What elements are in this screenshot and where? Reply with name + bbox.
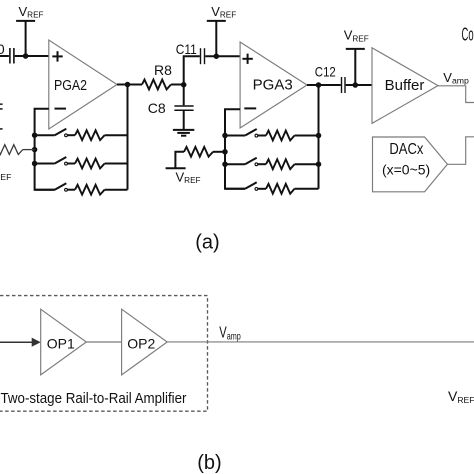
power symbol V_REF (above C11) <box>207 4 236 56</box>
switch, PGA2 feedback branch 3 <box>35 183 68 191</box>
input wire with arrow <box>0 338 41 347</box>
op-amp PGA2 <box>49 40 117 129</box>
wire C11 to PGA3 + input <box>205 55 240 57</box>
wire R8 to node <box>171 84 184 86</box>
partial cut-off label marks at left edge <box>0 104 3 129</box>
resistor, PGA2 feedback branch 1 <box>67 130 127 140</box>
caption (a) <box>195 232 219 254</box>
capacitor C11 <box>176 41 205 64</box>
node PGA3 right bus branch 2 <box>316 161 322 167</box>
svg-text:Two-stage Rail-to-Rail Amplifi: Two-stage Rail-to-Rail Amplifier <box>1 391 187 407</box>
power symbol V_REF (PGA3 feedback) <box>166 152 201 185</box>
resistor to V_REF (partial, cut at left edge) <box>0 145 35 182</box>
node on PGA2 feedback bus (branch 1) <box>32 132 38 138</box>
wire Buffer output V_amp to comparator <box>438 70 474 103</box>
capacitor C8 <box>148 85 194 130</box>
wire PGA2 - input to feedback bus <box>35 109 55 190</box>
resistor, PGA3 feedback branch 1 <box>258 131 319 141</box>
wire node up to C11 <box>184 56 200 84</box>
node on PGA3 feedback bus (branch 2) <box>222 161 228 167</box>
capacitor C12 <box>315 64 345 93</box>
node PGA3 right bus branch 1 <box>316 133 322 139</box>
op-amp OP2 <box>122 309 168 375</box>
node R8 / C8 / C11 junction <box>181 82 187 88</box>
switch, PGA3 feedback branch 1 <box>225 129 258 137</box>
svg-text:0: 0 <box>0 41 5 57</box>
node V_REF junction on Buffer input <box>353 82 359 88</box>
svg-text:(a): (a) <box>195 232 219 254</box>
wire PGA2 output <box>117 84 142 86</box>
switch, PGA3 feedback branch 2 <box>225 158 258 166</box>
wire PGA3 - input to feedback bus <box>225 109 245 189</box>
wire OP2 output V_amp <box>167 324 474 342</box>
node V_REF junction on PGA3 + input <box>214 53 220 59</box>
ground <box>173 130 194 136</box>
svg-text:OP1: OP1 <box>47 336 75 352</box>
node on PGA2 feedback bus (branch 2) <box>32 161 38 167</box>
node on PGA2 feedback bus (V_REF resistor) <box>32 147 38 153</box>
svg-text:C8: C8 <box>148 100 166 116</box>
resistor, PGA3 feedback branch 2 <box>258 159 319 169</box>
node: V_REF junction on PGA2 + input <box>23 53 29 59</box>
resistor, PGA2 feedback branch 3 <box>67 185 127 195</box>
svg-text:REF: REF <box>0 172 11 182</box>
capacitor C10 (partial, cut at left edge) <box>0 41 14 64</box>
svg-text:OP2: OP2 <box>127 336 155 352</box>
dashed box: two-stage amplifier <box>0 296 208 412</box>
svg-text:DACx: DACx <box>389 141 423 158</box>
svg-text:Com: Com <box>462 23 474 44</box>
node PGA3 output <box>316 82 322 88</box>
resistor, PGA2 feedback branch 2 <box>67 159 127 169</box>
op-amp Buffer U1 <box>372 48 438 124</box>
op-amp OP1 <box>41 309 87 375</box>
node on PGA3 feedback bus (branch 1) <box>222 133 228 139</box>
switch, PGA2 feedback branch 2 <box>35 157 68 165</box>
svg-text:PGA3: PGA3 <box>253 77 293 94</box>
svg-text:(b): (b) <box>197 452 221 474</box>
wire PGA2 output bus (right side of feedback) <box>127 85 129 190</box>
wire PGA3 output bus (right side of feedback) <box>318 85 320 189</box>
wire PGA3 output <box>307 84 341 86</box>
svg-text:(x=0~5): (x=0~5) <box>382 162 430 178</box>
power symbol V_REF (above C12) <box>344 28 369 85</box>
resistor R8 <box>142 62 172 90</box>
wire OP1 to OP2 <box>86 341 121 343</box>
power symbol V_REF (top left) <box>16 4 43 56</box>
svg-text:C11: C11 <box>176 41 197 57</box>
caption (b) <box>197 452 221 474</box>
label V_REF (section b) <box>448 388 474 405</box>
op-amp PGA3 <box>240 42 307 128</box>
DAC block DACx <box>373 137 448 192</box>
label Comparator (cut off at right edge) <box>462 23 474 44</box>
svg-text:C12: C12 <box>315 64 336 80</box>
label Two-stage Rail-to-Rail Amplifier <box>1 391 187 407</box>
wire C12 to Buffer <box>346 84 372 86</box>
wire DACx output to comparator <box>447 137 474 165</box>
node PGA2 output <box>125 82 131 88</box>
svg-text:Buffer: Buffer <box>385 77 425 94</box>
resistor V_REF to PGA3 feedback bus <box>184 147 225 157</box>
wire C10 to PGA2 + input <box>15 55 49 57</box>
svg-text:R8: R8 <box>154 62 172 78</box>
switch, PGA3 feedback branch 3 <box>225 182 258 190</box>
switch, PGA2 feedback branch 1 <box>35 129 68 137</box>
node on PGA3 feedback bus (V_REF resistor) <box>222 149 228 155</box>
svg-text:PGA2: PGA2 <box>54 77 87 94</box>
resistor, PGA3 feedback branch 3 <box>258 184 319 194</box>
